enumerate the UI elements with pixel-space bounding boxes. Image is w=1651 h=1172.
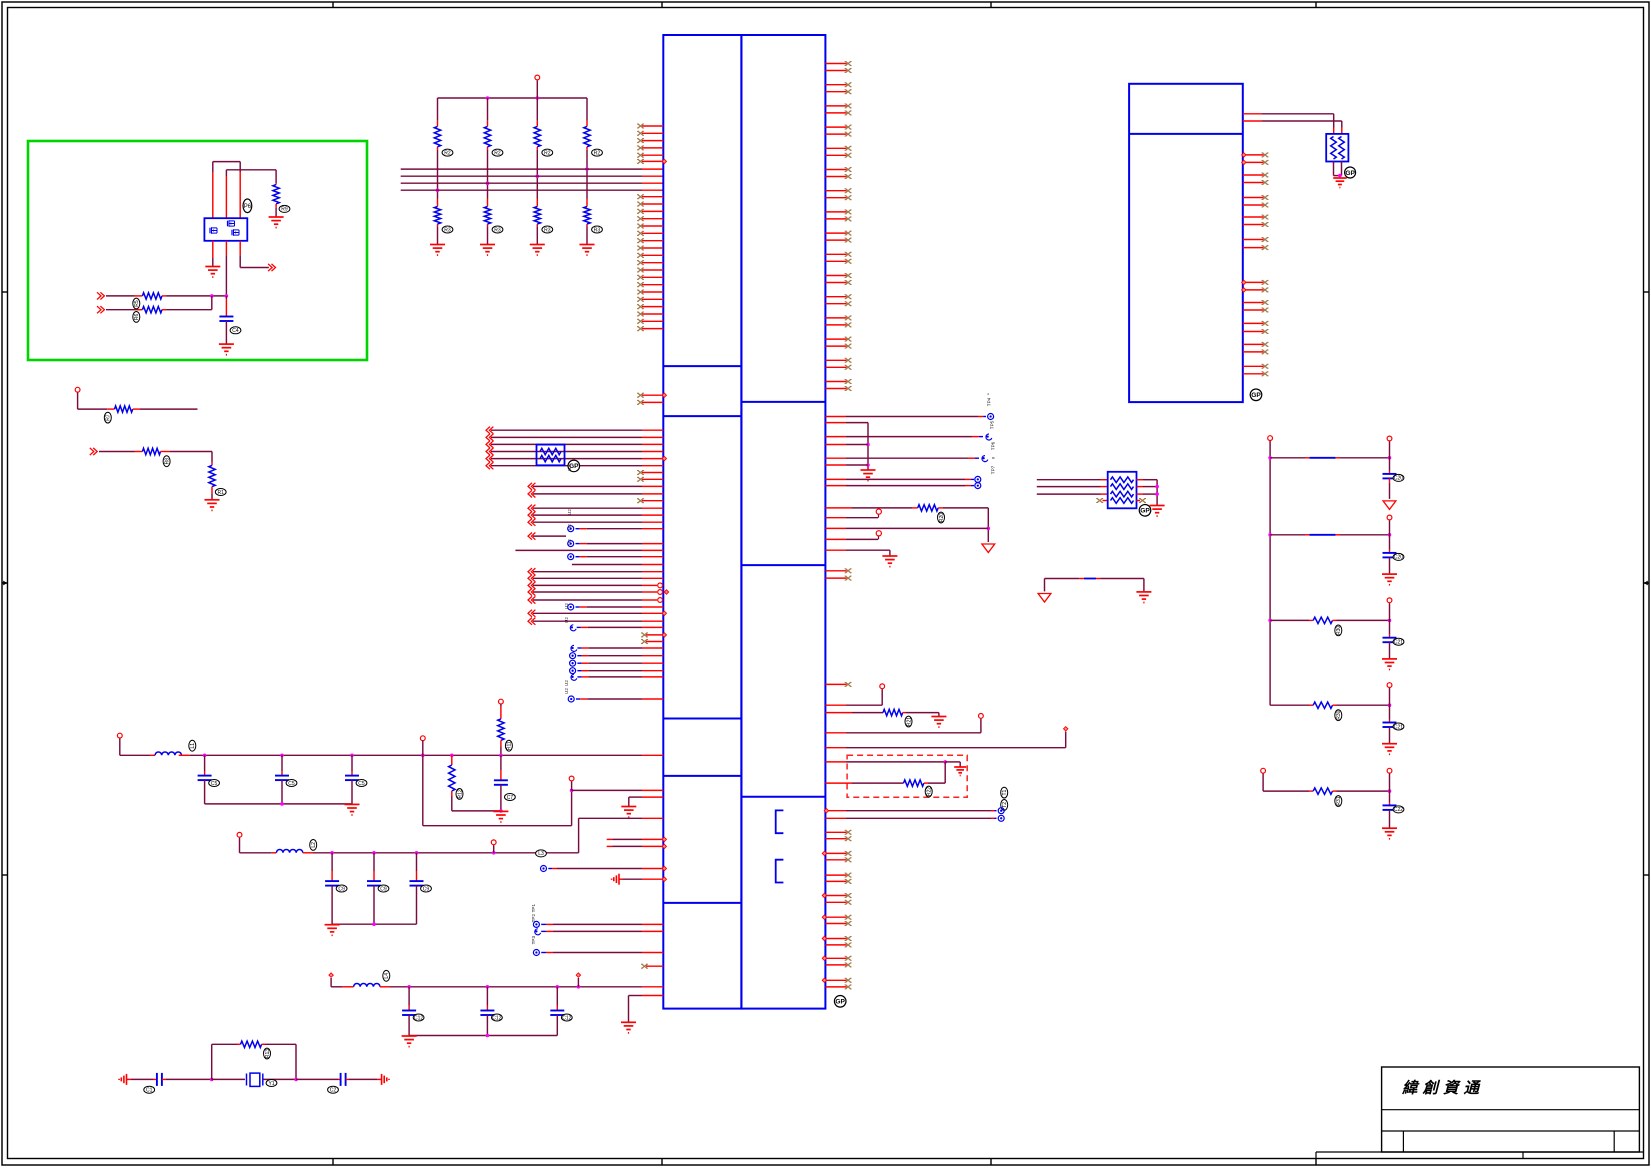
svg-text:U2: U2 [567, 465, 572, 471]
svg-text:R21: R21 [906, 717, 912, 726]
svg-text:T1: T1 [1002, 789, 1008, 795]
svg-text:R7: R7 [106, 414, 112, 421]
svg-text:C20: C20 [1394, 555, 1403, 561]
svg-text:L1: L1 [190, 743, 196, 749]
svg-text:TP1: TP1 [531, 904, 536, 913]
svg-text:U2: U2 [564, 603, 569, 609]
svg-text:C9: C9 [380, 886, 387, 892]
svg-text:x: x [991, 456, 996, 459]
svg-text:R31: R31 [1336, 796, 1342, 805]
svg-text:R22: R22 [927, 787, 933, 796]
svg-text:R3: R3 [444, 227, 451, 233]
svg-text:GP: GP [1140, 508, 1150, 515]
svg-text:C12: C12 [414, 1015, 423, 1021]
svg-text:^: ^ [987, 392, 992, 395]
svg-text:C21: C21 [1394, 640, 1403, 646]
svg-text:C12: C12 [562, 1015, 571, 1021]
svg-text:R2: R2 [494, 150, 501, 156]
svg-text:TP3: TP3 [531, 936, 536, 945]
svg-text:R12: R12 [457, 789, 463, 798]
svg-text:C5: C5 [358, 781, 365, 787]
svg-text:TP5: TP5 [990, 420, 995, 429]
svg-text:U2: U2 [567, 539, 572, 545]
svg-text:L3: L3 [538, 851, 544, 857]
svg-text:C22: C22 [1394, 807, 1403, 813]
svg-text:C2: C2 [330, 1088, 337, 1094]
svg-text:R2: R2 [594, 150, 601, 156]
svg-text:U2: U2 [567, 509, 572, 515]
svg-text:TP6: TP6 [991, 441, 996, 450]
svg-text:TP2: TP2 [531, 914, 536, 923]
svg-text:R6: R6 [134, 313, 140, 320]
svg-text:C7: C7 [507, 795, 514, 801]
svg-text:C20: C20 [1394, 476, 1403, 482]
svg-text:R3: R3 [494, 227, 501, 233]
svg-text:C21: C21 [1394, 724, 1403, 730]
svg-text:C4: C4 [232, 328, 239, 334]
svg-text:P6: P6 [244, 204, 252, 210]
svg-text:TP7: TP7 [991, 465, 996, 474]
svg-text:GP: GP [835, 999, 845, 1006]
svg-text:R3: R3 [594, 227, 601, 233]
svg-text:R2: R2 [544, 150, 551, 156]
svg-text:R3: R3 [544, 227, 551, 233]
svg-text:C5: C5 [211, 781, 218, 787]
svg-text:GP: GP [1345, 170, 1355, 177]
svg-text:R2: R2 [444, 150, 451, 156]
svg-text:C12: C12 [492, 1015, 501, 1021]
svg-text:L4: L4 [384, 973, 390, 979]
svg-text:C5: C5 [288, 781, 295, 787]
svg-text:T2: T2 [1002, 802, 1008, 808]
svg-text:R5: R5 [134, 300, 140, 307]
svg-text:C1: C1 [146, 1088, 153, 1094]
svg-text:C9: C9 [423, 886, 430, 892]
svg-text:U2: U2 [564, 617, 569, 623]
svg-text:R9: R9 [281, 207, 288, 213]
svg-text:U2: U2 [564, 680, 569, 686]
svg-text:R13: R13 [265, 1049, 271, 1058]
svg-text:C9: C9 [338, 886, 345, 892]
svg-text:TP4: TP4 [987, 397, 992, 406]
svg-text:GP: GP [1251, 392, 1261, 399]
svg-text:U2: U2 [567, 524, 572, 530]
svg-text:R30: R30 [1336, 626, 1342, 635]
svg-text:緯創資通: 緯創資通 [1401, 1079, 1484, 1097]
svg-text:Y1: Y1 [268, 1081, 274, 1087]
svg-text:R11: R11 [507, 741, 513, 750]
svg-text:U2: U2 [564, 688, 569, 694]
svg-text:R8: R8 [164, 458, 170, 465]
svg-text:R1: R1 [217, 490, 224, 496]
svg-text:R30: R30 [1336, 710, 1342, 719]
svg-text:L2: L2 [311, 842, 317, 848]
svg-text:R20: R20 [939, 513, 945, 522]
